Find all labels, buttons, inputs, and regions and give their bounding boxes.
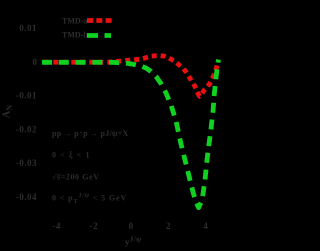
svg-text:-0.04: -0.04 <box>16 192 37 202</box>
svg-text:-2: -2 <box>90 221 99 231</box>
svg-text:TMD-b: TMD-b <box>62 31 88 40</box>
curve TMD-a (red dotted) <box>42 56 218 97</box>
legend marker TMD-a (red dotted) <box>87 18 112 23</box>
svg-text:√s̅=200 GeV: √s̅=200 GeV <box>52 173 100 182</box>
curve TMD-b (green dashed) <box>42 60 219 208</box>
svg-text:-0.02: -0.02 <box>16 124 37 134</box>
legend marker TMD-b (green dashed) <box>87 33 111 38</box>
svg-text:pp → p↑p → pJ/ψ+X: pp → p↑p → pJ/ψ+X <box>52 129 129 138</box>
svg-text:-0.03: -0.03 <box>16 158 37 168</box>
svg-text:2: 2 <box>166 221 171 231</box>
svg-text:0: 0 <box>129 221 134 231</box>
svg-text:0 < ξ < 1: 0 < ξ < 1 <box>52 151 91 160</box>
svg-text:0.01: 0.01 <box>19 23 37 33</box>
svg-text:0: 0 <box>33 57 38 67</box>
svg-text:TMD-a: TMD-a <box>62 17 87 26</box>
svg-text:-0.01: -0.01 <box>16 91 37 101</box>
svg-text:4: 4 <box>203 221 208 231</box>
svg-text:-4: -4 <box>52 221 61 231</box>
